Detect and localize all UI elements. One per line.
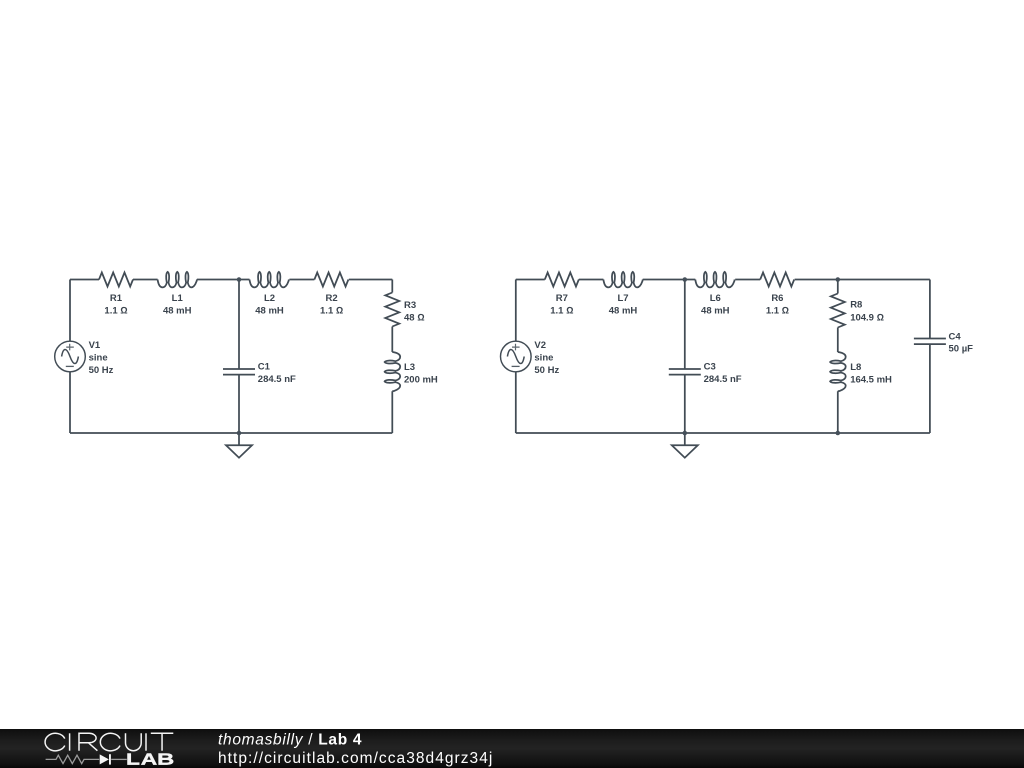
svg-text:1.1 Ω: 1.1 Ω	[550, 305, 573, 316]
svg-text:48 mH: 48 mH	[255, 305, 284, 316]
svg-text:L8: L8	[850, 362, 861, 373]
svg-text:48 mH: 48 mH	[609, 305, 638, 316]
svg-text:1.1 Ω: 1.1 Ω	[766, 305, 789, 316]
svg-text:C4: C4	[949, 332, 962, 343]
svg-text:104.9 Ω: 104.9 Ω	[850, 313, 884, 324]
svg-text:thomasbilly / Lab 4: thomasbilly / Lab 4	[218, 731, 362, 748]
svg-text:V1: V1	[89, 340, 101, 351]
svg-text:1.1 Ω: 1.1 Ω	[104, 305, 127, 316]
svg-text:284.5 nF: 284.5 nF	[258, 374, 296, 385]
svg-text:C1: C1	[258, 362, 271, 373]
svg-text:http://circuitlab.com/cca38d4g: http://circuitlab.com/cca38d4grz34j	[218, 750, 493, 767]
svg-text:200 mH: 200 mH	[404, 374, 438, 385]
svg-text:L6: L6	[710, 293, 721, 304]
svg-text:R2: R2	[326, 293, 338, 304]
svg-text:L3: L3	[404, 362, 415, 373]
svg-text:R8: R8	[850, 300, 862, 311]
svg-text:R1: R1	[110, 293, 123, 304]
svg-text:V2: V2	[534, 340, 546, 351]
svg-text:50 Hz: 50 Hz	[534, 365, 559, 376]
svg-text:R6: R6	[771, 293, 783, 304]
svg-text:sine: sine	[534, 353, 553, 364]
svg-text:284.5 nF: 284.5 nF	[704, 374, 742, 385]
svg-text:1.1 Ω: 1.1 Ω	[320, 305, 343, 316]
svg-text:sine: sine	[89, 353, 108, 364]
svg-text:L2: L2	[264, 293, 275, 304]
svg-text:50 Hz: 50 Hz	[89, 365, 114, 376]
svg-text:164.5 mH: 164.5 mH	[850, 374, 892, 385]
svg-text:L1: L1	[172, 293, 184, 304]
svg-text:C3: C3	[704, 362, 716, 373]
svg-text:R7: R7	[556, 293, 568, 304]
svg-text:48 mH: 48 mH	[163, 305, 192, 316]
svg-text:L7: L7	[617, 293, 628, 304]
svg-text:48 mH: 48 mH	[701, 305, 730, 316]
svg-text:R3: R3	[404, 300, 416, 311]
svg-text:50 µF: 50 µF	[949, 343, 974, 354]
svg-text:48 Ω: 48 Ω	[404, 313, 425, 324]
